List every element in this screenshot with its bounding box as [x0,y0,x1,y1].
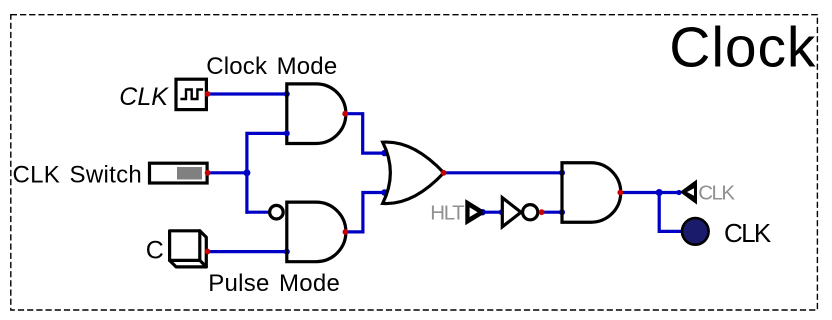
wire end dot at inverter input [499,209,505,215]
svg-text:HLT: HLT [430,202,465,225]
and-gate U1 Clock Mode [287,84,346,144]
wire end dot at OR input 1 [381,150,387,156]
wire end dot tunnel CLK [676,190,681,195]
junction B [656,189,663,196]
tunnel HLT [467,201,485,223]
wire junction to AND1 input 2 [247,132,287,135]
junction A [243,169,250,176]
port dot button output [205,249,211,255]
port dot clock output [205,91,211,97]
svg-text:Pulse Mode: Pulse Mode [208,270,340,297]
and-gate U5 [562,163,621,223]
wire end dot at OR input 2 [381,189,387,195]
svg-text:CLK Switch: CLK Switch [13,162,143,189]
wire inverter to AND3 input 2 [542,211,562,214]
svg-text:Clock Mode: Clock Mode [206,53,337,80]
wire end dot at AND1 input 1 [284,91,290,97]
wire end dot at AND3 input 2 [559,209,565,215]
port dot AND1 output [342,111,348,117]
svg-text:CLK: CLK [119,83,169,111]
wire end dot at AND2 input 2 [284,249,290,255]
wire OR output to AND3 input 1 [444,171,562,174]
svg-text:C: C [146,237,164,265]
wire AND2 output to OR input 2 [346,193,385,232]
tunnel CLK [682,182,696,203]
wire junction vertical [245,132,248,214]
wire AND1 output to OR input 1 [346,114,385,153]
wire switch to junction [209,171,247,174]
wire button to AND2 input 2 [208,250,287,253]
or-gate U3 [383,142,444,203]
wire end dot at AND1 input 2 [284,130,290,136]
port dot OR output [441,170,447,176]
port dot AND2 output [343,229,349,235]
wire tunnel HLT to inverter [483,211,503,214]
inverter U4 [502,198,538,227]
output pin CLK [682,218,709,245]
clock source CLK [176,79,206,109]
input pin CLK Switch [150,163,208,183]
port dot inverter output [539,209,545,215]
wire end dot at AND3 input 1 [559,170,565,176]
wire AND3 output to junction B [621,191,659,194]
port dot AND3 output [617,190,623,196]
wire junction to AND2 inverted input [247,211,269,214]
svg-text:CLK: CLK [724,218,772,248]
wire end dot tunnel HLT [479,209,485,215]
and-gate U2 Pulse Mode [287,202,346,262]
svg-text:CLK: CLK [698,181,735,204]
inversion bubble AND2 input [270,205,284,219]
wire clock to AND1 [208,92,287,95]
svg-text:Clock: Clock [669,16,816,80]
wire junction B down to output pin [659,193,681,232]
wire junction B to tunnel CLK [659,191,679,194]
port dot switch output [205,170,211,176]
button C [170,231,207,267]
